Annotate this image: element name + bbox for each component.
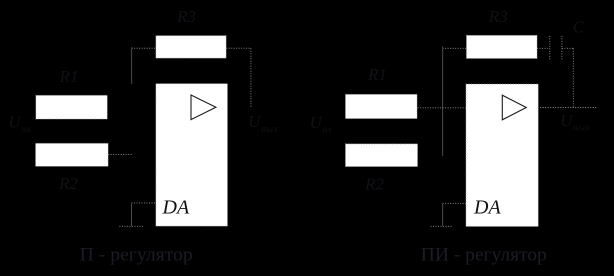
svg-text:U: U (8, 113, 22, 132)
wire: non-inverting input (132, 202, 156, 204)
resistor R2 (345, 144, 417, 167)
svg-text:вых: вых (261, 123, 278, 135)
wire: output feedback vertical (250, 48, 252, 107)
wire: R1 right to inverting input (418, 107, 466, 109)
svg-text:U: U (248, 112, 262, 131)
ground stem (131, 203, 133, 226)
resistor R1 (36, 95, 108, 119)
svg-text:R1: R1 (59, 67, 79, 86)
svg-text:R2: R2 (364, 175, 384, 194)
wire: R3 right to capacitor (537, 47, 550, 49)
svg-text:C: C (573, 18, 585, 37)
wire: output feedback vertical (572, 48, 574, 107)
resistor R3 (feedback) (466, 35, 537, 58)
svg-text:DA: DA (162, 196, 190, 218)
svg-text:вых: вых (573, 122, 590, 134)
wire: R3 right to output node (226, 47, 251, 49)
svg-text:R3: R3 (488, 7, 508, 26)
wire: output (538, 107, 598, 109)
resistor R1 (345, 94, 417, 118)
svg-text:вх: вх (323, 123, 333, 135)
ground stem (442, 203, 444, 226)
svg-text:R1: R1 (367, 65, 387, 84)
op-amp DA box (156, 84, 228, 227)
svg-text:П - регулятор: П - регулятор (80, 245, 193, 266)
ground bar (119, 225, 142, 227)
capacitor C right plate (561, 36, 563, 60)
svg-text:U: U (310, 113, 324, 132)
wire: feedback vertical down across inverting input to R2 level (442, 46, 444, 156)
svg-text:DA: DA (473, 196, 501, 218)
capacitor C left plate (549, 36, 551, 60)
wire: stub from feedback node to R3 left (443, 47, 467, 49)
op-amp triangle (502, 95, 526, 120)
svg-text:вх: вх (22, 124, 32, 136)
svg-text:R2: R2 (58, 174, 78, 193)
op-amp DA box (466, 84, 538, 227)
svg-text:ПИ - регулятор: ПИ - регулятор (421, 245, 547, 266)
wire: R2 right stub (108, 154, 132, 156)
wire: capacitor right to output feedback corner (562, 47, 573, 49)
svg-text:U: U (560, 111, 574, 130)
ground bar (431, 225, 453, 227)
svg-text:R3: R3 (176, 7, 196, 26)
wire: stub from feedback node to R3 left (132, 47, 156, 49)
resistor R2 (36, 143, 109, 166)
wire: feedback vertical down to inverting input (131, 47, 133, 84)
op-amp triangle (191, 95, 216, 120)
resistor R3 (feedback) (156, 36, 226, 59)
wire: non-inverting input (443, 202, 467, 204)
